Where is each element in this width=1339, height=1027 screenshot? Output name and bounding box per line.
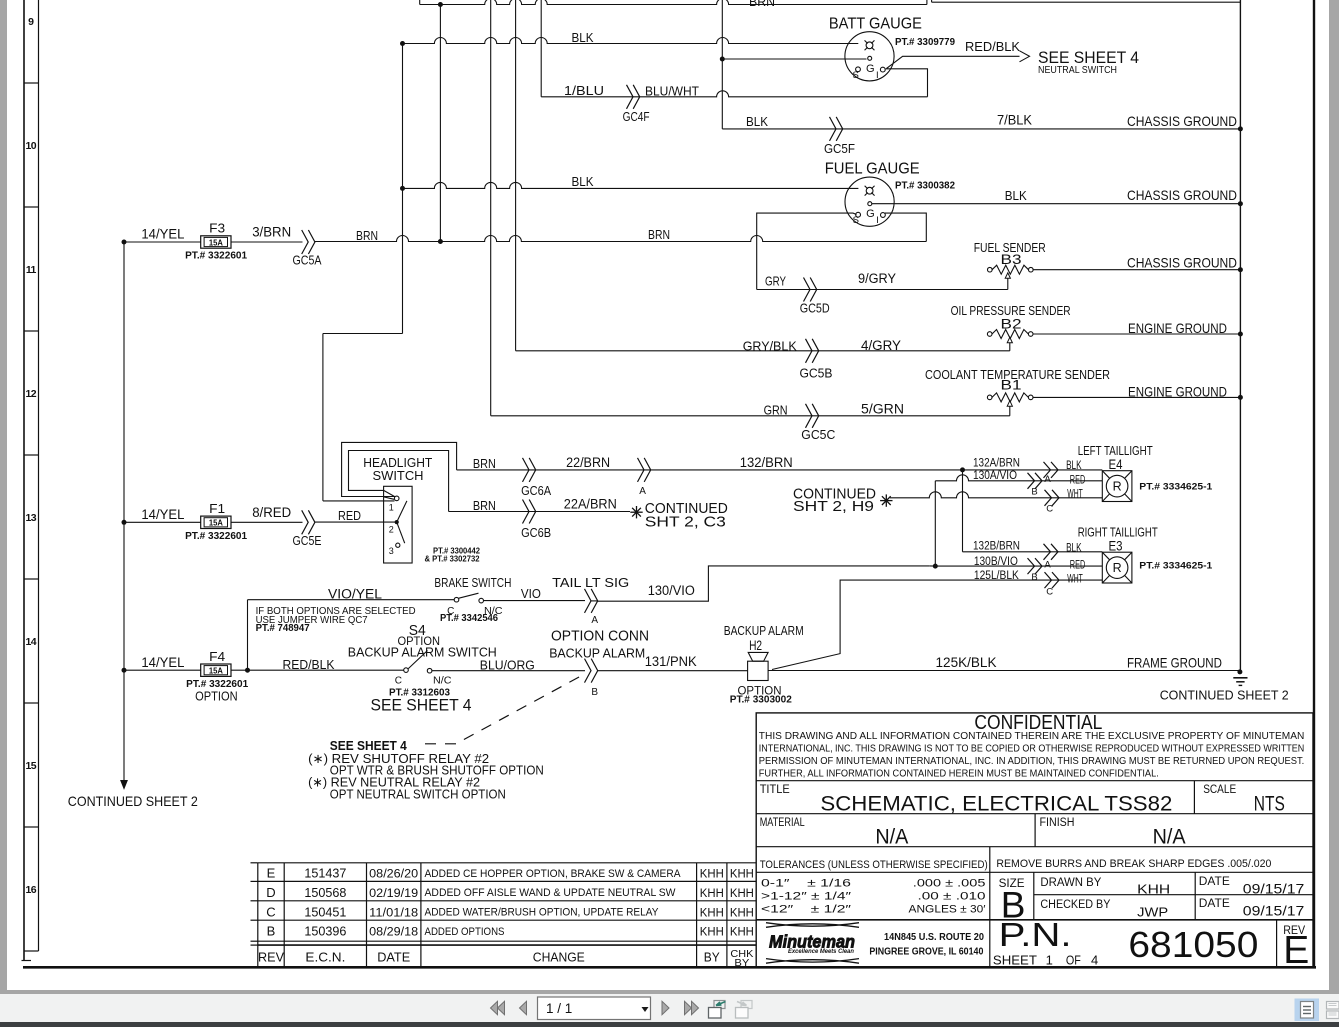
svg-text:10: 10	[26, 140, 37, 152]
svg-text:OF: OF	[1066, 953, 1081, 968]
svg-text:PT.# 3303002: PT.# 3303002	[730, 695, 792, 706]
svg-text:BLK: BLK	[572, 30, 594, 45]
svg-text:125K/BLK: 125K/BLK	[936, 655, 997, 670]
svg-text:MATERIAL: MATERIAL	[760, 817, 805, 829]
svg-text:BRN: BRN	[749, 0, 775, 9]
svg-text:3: 3	[389, 546, 394, 556]
svg-text:FRAME GROUND: FRAME GROUND	[1127, 655, 1222, 671]
svg-text:3/BRN: 3/BRN	[252, 224, 291, 239]
svg-text:CHASSIS GROUND: CHASSIS GROUND	[1127, 254, 1237, 270]
svg-text:PT.# 3309779: PT.# 3309779	[895, 37, 955, 48]
svg-text:BLK: BLK	[1066, 460, 1082, 472]
svg-text:GC5D: GC5D	[800, 300, 830, 315]
svg-text:E: E	[267, 866, 276, 881]
svg-text:2: 2	[389, 524, 394, 534]
svg-text:DATE: DATE	[1199, 876, 1230, 888]
svg-text:E3: E3	[1109, 539, 1123, 554]
svg-text:11/01/18: 11/01/18	[369, 907, 418, 919]
svg-text:SWITCH: SWITCH	[373, 468, 424, 483]
svg-text:RED/BLK: RED/BLK	[965, 39, 1020, 54]
svg-text:KHH: KHH	[700, 907, 724, 919]
svg-text:GC6A: GC6A	[521, 483, 551, 498]
svg-text:5/GRN: 5/GRN	[861, 401, 904, 416]
svg-text:ENGINE GROUND: ENGINE GROUND	[1128, 320, 1227, 336]
svg-text:PT.# 3342546: PT.# 3342546	[440, 613, 498, 624]
svg-text:15A: 15A	[209, 518, 223, 528]
svg-text:PT.# 748947: PT.# 748947	[256, 623, 310, 634]
svg-text:KHH: KHH	[730, 907, 754, 919]
svg-text:132A/BRN: 132A/BRN	[973, 458, 1020, 470]
svg-text:ANGLES ± 30′: ANGLES ± 30′	[909, 904, 986, 916]
svg-text:0-1″ ± 1/16: 0-1″ ± 1/16	[761, 878, 851, 890]
svg-text:E4: E4	[1109, 457, 1123, 472]
svg-text:JWP: JWP	[1137, 905, 1168, 920]
svg-text:GRY/BLK: GRY/BLK	[743, 339, 797, 354]
svg-text:GRN: GRN	[764, 402, 788, 417]
svg-text:9/GRY: 9/GRY	[858, 271, 896, 286]
svg-text:ADDED WATER/BRUSH OPTION, UPDA: ADDED WATER/BRUSH OPTION, UPDATE RELAY	[425, 907, 660, 919]
svg-text:BACKUP ALARM SWITCH: BACKUP ALARM SWITCH	[348, 645, 497, 660]
svg-text:125L/BLK: 125L/BLK	[974, 570, 1019, 582]
svg-text:TAIL LT SIG: TAIL LT SIG	[552, 575, 629, 590]
svg-text:E.C.N.: E.C.N.	[305, 950, 345, 965]
svg-text:130/VIO: 130/VIO	[648, 583, 695, 598]
svg-text:S: S	[853, 70, 859, 81]
svg-text:BRAKE SWITCH: BRAKE SWITCH	[434, 575, 511, 590]
svg-text:ADDED OPTIONS: ADDED OPTIONS	[425, 926, 505, 938]
svg-text:15A: 15A	[209, 237, 223, 247]
svg-text:ENGINE GROUND: ENGINE GROUND	[1128, 384, 1227, 400]
svg-text:PERMISSION OF MINUTEMAN INTERN: PERMISSION OF MINUTEMAN INTERNATIONAL, I…	[759, 756, 1305, 767]
svg-text:F4: F4	[209, 649, 225, 664]
svg-text:VIO: VIO	[521, 586, 541, 601]
svg-text:RED: RED	[1070, 560, 1086, 572]
svg-text:22A/BRN: 22A/BRN	[564, 497, 617, 512]
svg-text:08/29/18: 08/29/18	[369, 927, 418, 939]
svg-text:BRN: BRN	[473, 456, 496, 471]
svg-text:KHH: KHH	[730, 888, 754, 900]
svg-text:B: B	[591, 687, 598, 698]
svg-text:BLU/ORG: BLU/ORG	[480, 657, 535, 672]
svg-text:150568: 150568	[304, 885, 346, 900]
svg-text:BLK: BLK	[572, 174, 594, 189]
svg-text:I: I	[876, 70, 879, 81]
svg-text:TOLERANCES (UNLESS OTHERWISE S: TOLERANCES (UNLESS OTHERWISE SPECIFIED)	[760, 859, 988, 871]
svg-text:SEE SHEET 4: SEE SHEET 4	[371, 695, 472, 714]
svg-text:RED: RED	[1070, 474, 1086, 486]
svg-text:P.N.: P.N.	[999, 916, 1072, 953]
svg-text:14/YEL: 14/YEL	[141, 655, 184, 670]
svg-text:16: 16	[26, 884, 37, 896]
svg-text:4: 4	[1091, 953, 1098, 968]
svg-text:PT.# 3334625-1: PT.# 3334625-1	[1139, 482, 1212, 492]
svg-text:KHH: KHH	[700, 869, 724, 881]
svg-text:150396: 150396	[304, 924, 346, 939]
svg-text:OPTION CONN: OPTION CONN	[551, 629, 649, 645]
svg-text:KHH: KHH	[700, 927, 724, 939]
svg-text:LEFT TAILLIGHT: LEFT TAILLIGHT	[1078, 443, 1153, 458]
svg-text:WHT: WHT	[1067, 573, 1083, 585]
svg-text:4/GRY: 4/GRY	[861, 338, 901, 353]
svg-text:FINISH: FINISH	[1040, 817, 1075, 829]
svg-text:NTS: NTS	[1254, 793, 1285, 816]
svg-text:BLK: BLK	[1066, 542, 1082, 554]
svg-text:1/BLU: 1/BLU	[564, 83, 604, 98]
svg-text:N/A: N/A	[875, 826, 908, 849]
svg-text:PT.# 3322601: PT.# 3322601	[185, 251, 247, 262]
svg-text:1 / 1: 1 / 1	[546, 1001, 572, 1016]
svg-text:KHH: KHH	[700, 888, 724, 900]
svg-text:C: C	[1046, 503, 1053, 514]
svg-text:A: A	[1044, 474, 1051, 485]
svg-text:C: C	[395, 675, 402, 686]
svg-text:FUEL GAUGE: FUEL GAUGE	[825, 160, 920, 177]
svg-text:DRAWN BY: DRAWN BY	[1040, 877, 1101, 889]
svg-text:BACKUP ALARM: BACKUP ALARM	[549, 646, 645, 661]
svg-text:H2: H2	[749, 638, 762, 653]
svg-text:R: R	[1113, 561, 1122, 575]
svg-text:.000 ± .005: .000 ± .005	[913, 878, 986, 890]
svg-text:12: 12	[26, 388, 37, 400]
svg-text:KHH: KHH	[730, 927, 754, 939]
svg-text:N/A: N/A	[1153, 826, 1186, 849]
svg-text:BY: BY	[704, 950, 720, 965]
svg-text:F1: F1	[209, 501, 225, 516]
svg-text:PT.# 3334625-1: PT.# 3334625-1	[1139, 561, 1212, 571]
svg-text:REMOVE BURRS AND BREAK SHARP E: REMOVE BURRS AND BREAK SHARP EDGES .005/…	[996, 858, 1271, 870]
svg-text:08/26/20: 08/26/20	[369, 869, 418, 881]
svg-text:09/15/17: 09/15/17	[1243, 902, 1305, 918]
svg-text:B3: B3	[1001, 252, 1022, 267]
svg-text:BLK: BLK	[746, 114, 768, 129]
svg-text:14/YEL: 14/YEL	[141, 227, 184, 242]
svg-text:1: 1	[1046, 953, 1053, 968]
svg-text:E: E	[1283, 929, 1309, 972]
svg-text:RED/BLK: RED/BLK	[283, 657, 335, 672]
svg-text:DATE: DATE	[377, 950, 410, 965]
svg-text:FURTHER, ALL INFORMATION CONTA: FURTHER, ALL INFORMATION CONTAINED HEREI…	[759, 769, 1159, 780]
svg-text:R: R	[1113, 480, 1122, 494]
svg-text:GC6B: GC6B	[521, 525, 551, 540]
svg-text:SHT 2, C3: SHT 2, C3	[645, 513, 726, 530]
svg-text:22/BRN: 22/BRN	[566, 455, 610, 470]
svg-text:ADDED CE HOPPER OPTION, BRAKE: ADDED CE HOPPER OPTION, BRAKE SW & CAMER…	[425, 868, 682, 880]
svg-text:NEUTRAL SWITCH: NEUTRAL SWITCH	[1038, 64, 1117, 76]
svg-text:BLU/WHT: BLU/WHT	[645, 83, 699, 98]
svg-text:8/RED: 8/RED	[252, 505, 291, 520]
svg-text:RED: RED	[338, 508, 361, 523]
svg-text:GC5E: GC5E	[293, 533, 322, 548]
svg-text:KHH: KHH	[730, 869, 754, 881]
svg-text:15A: 15A	[209, 666, 223, 676]
svg-text:GC5F: GC5F	[824, 141, 855, 156]
svg-text:I: I	[876, 215, 879, 226]
svg-text:14: 14	[26, 636, 37, 648]
svg-text:BACKUP ALARM: BACKUP ALARM	[724, 623, 804, 638]
svg-text:S: S	[853, 215, 859, 226]
svg-text:F3: F3	[209, 221, 225, 236]
svg-text:BRN: BRN	[473, 498, 496, 513]
svg-text:13: 13	[26, 512, 37, 524]
svg-text:151437: 151437	[304, 866, 346, 881]
svg-text:INTERNATIONAL, INC. THIS DRAWI: INTERNATIONAL, INC. THIS DRAWING IS NOT …	[759, 744, 1305, 755]
svg-text:BATT GAUGE: BATT GAUGE	[829, 16, 922, 33]
svg-text:130B/VIO: 130B/VIO	[974, 556, 1018, 568]
svg-text:14N845 U.S. ROUTE 20: 14N845 U.S. ROUTE 20	[884, 932, 984, 943]
svg-text:GC5C: GC5C	[801, 427, 835, 442]
svg-text:PT.# 3300382: PT.# 3300382	[895, 180, 955, 191]
svg-text:DATE: DATE	[1199, 898, 1230, 910]
svg-text:D: D	[266, 885, 275, 900]
svg-text:09/15/17: 09/15/17	[1243, 880, 1305, 896]
svg-text:RIGHT TAILLIGHT: RIGHT TAILLIGHT	[1078, 525, 1158, 540]
svg-text:B2: B2	[1001, 317, 1022, 332]
svg-text:7/BLK: 7/BLK	[997, 113, 1032, 128]
svg-text:B1: B1	[1001, 378, 1022, 393]
svg-text:9: 9	[28, 16, 34, 28]
svg-text:BLK: BLK	[1005, 188, 1027, 203]
svg-text:CHASSIS GROUND: CHASSIS GROUND	[1127, 113, 1237, 129]
svg-text:OPT NEUTRAL SWITCH OPTION: OPT NEUTRAL SWITCH OPTION	[330, 787, 506, 802]
svg-text:REV: REV	[258, 951, 285, 965]
svg-text:14/YEL: 14/YEL	[141, 507, 184, 522]
svg-text:N/C: N/C	[433, 675, 452, 686]
svg-text:B: B	[267, 924, 276, 939]
svg-text:SHT 2, H9: SHT 2, H9	[793, 498, 874, 515]
svg-text:A: A	[1044, 559, 1051, 570]
svg-text:CHECKED BY: CHECKED BY	[1040, 899, 1110, 911]
svg-text:15: 15	[26, 760, 37, 772]
svg-text:150451: 150451	[304, 904, 346, 919]
svg-text:<12″ ± 1/2″: <12″ ± 1/2″	[761, 904, 851, 916]
svg-text:CHASSIS GROUND: CHASSIS GROUND	[1127, 187, 1237, 203]
svg-text:11: 11	[26, 264, 37, 276]
svg-text:A: A	[591, 615, 598, 626]
svg-text:ADDED OFF AISLE WAND & UPDATE: ADDED OFF AISLE WAND & UPDATE NEUTRAL SW	[425, 887, 677, 899]
svg-text:CONTINUED SHEET 2: CONTINUED SHEET 2	[68, 793, 198, 809]
svg-text:131/PNK: 131/PNK	[645, 654, 697, 669]
svg-text:G: G	[866, 63, 875, 75]
svg-text:WHT: WHT	[1067, 488, 1083, 500]
svg-text:G: G	[866, 208, 875, 220]
svg-text:PT.# 3322601: PT.# 3322601	[185, 531, 247, 542]
svg-text:A: A	[639, 486, 646, 497]
svg-text:GC5A: GC5A	[293, 252, 322, 267]
svg-text:CHANGE: CHANGE	[533, 950, 585, 965]
svg-text:C: C	[1046, 586, 1053, 597]
svg-text:VIO/YEL: VIO/YEL	[328, 586, 382, 601]
svg-text:C: C	[266, 904, 275, 919]
svg-text:1: 1	[389, 502, 394, 512]
svg-text:GC4F: GC4F	[623, 109, 650, 124]
svg-text:BRN: BRN	[356, 228, 378, 243]
svg-text:.00 ± .010: .00 ± .010	[918, 891, 986, 903]
svg-text:CONTINUED SHEET 2: CONTINUED SHEET 2	[1160, 688, 1289, 703]
svg-text:TITLE: TITLE	[760, 784, 790, 796]
svg-text:02/19/19: 02/19/19	[369, 888, 418, 900]
svg-text:PINGREE GROVE, IL 60140: PINGREE GROVE, IL 60140	[869, 947, 983, 958]
svg-text:BY: BY	[734, 957, 749, 969]
svg-text:GC5B: GC5B	[800, 366, 833, 381]
svg-text:BRN: BRN	[648, 227, 670, 242]
svg-text:THIS DRAWING AND ALL INFORMATI: THIS DRAWING AND ALL INFORMATION CONTAIN…	[759, 731, 1305, 742]
svg-text:GRY: GRY	[765, 273, 786, 288]
svg-text:681050: 681050	[1128, 924, 1258, 965]
svg-text:SCALE: SCALE	[1203, 784, 1236, 796]
svg-text:130A/VIO: 130A/VIO	[973, 470, 1017, 482]
svg-text:132/BRN: 132/BRN	[740, 455, 793, 470]
svg-text:>1-12″ ± 1/4″: >1-12″ ± 1/4″	[761, 891, 851, 903]
svg-text:SCHEMATIC, ELECTRICAL TSS82: SCHEMATIC, ELECTRICAL TSS82	[820, 793, 1172, 816]
svg-text:OPTION: OPTION	[195, 688, 238, 703]
svg-text:B: B	[1031, 487, 1037, 498]
svg-text:132B/BRN: 132B/BRN	[973, 540, 1020, 552]
svg-text:Excellence Meets Clean: Excellence Meets Clean	[788, 948, 854, 955]
svg-text:B: B	[1031, 572, 1037, 583]
svg-text:SHEET: SHEET	[993, 953, 1037, 968]
svg-text:& PT.# 3302732: & PT.# 3302732	[425, 554, 480, 564]
